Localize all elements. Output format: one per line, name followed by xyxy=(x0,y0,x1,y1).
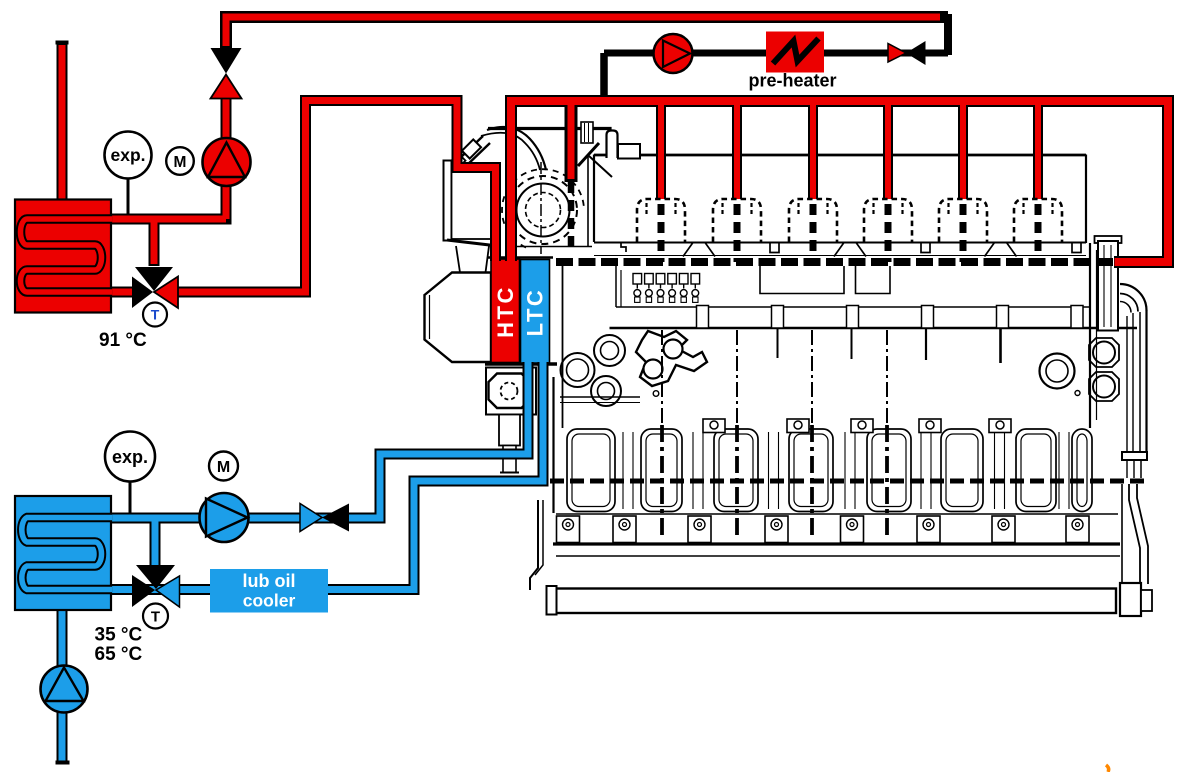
wire: thermostat drop red core xyxy=(151,219,158,264)
rear duct column xyxy=(1090,236,1122,428)
wire: pre-heater black line xyxy=(604,50,948,57)
exhaust outlet plate xyxy=(444,161,499,273)
base rails xyxy=(556,513,1118,515)
pump P4 (raw water) xyxy=(41,666,88,713)
cylinder head cover xyxy=(713,199,761,242)
deck notch xyxy=(770,243,779,253)
turbo outlet flange rects xyxy=(578,131,640,167)
svg-text:65 °C: 65 °C xyxy=(95,644,143,665)
wire: valve-pump-junction casing xyxy=(221,96,232,225)
cylinder head cover xyxy=(637,199,685,242)
deck line secondary xyxy=(594,255,1086,257)
lub oil cooler xyxy=(210,569,328,613)
wire: vent pipe casing top-left xyxy=(57,42,68,200)
deck hook right xyxy=(1072,243,1081,253)
dashed crankshaft line xyxy=(550,479,1150,484)
wire: manifold loop casing xyxy=(511,101,1168,262)
wire: cold tank bottom pipe casing xyxy=(57,610,68,668)
svg-text:exp.: exp. xyxy=(110,145,145,165)
cylinder head cover xyxy=(1014,199,1062,242)
svg-text:35 °C: 35 °C xyxy=(95,625,143,646)
svg-text:T: T xyxy=(151,307,160,323)
svg-text:M: M xyxy=(174,154,187,171)
svg-text:pre-heater: pre-heater xyxy=(748,71,836,91)
pump P1 (HT circuit) xyxy=(203,138,251,186)
wire: tank-to-thermostat stub casing xyxy=(109,287,136,298)
wire: LTC out pipe A casing xyxy=(109,362,528,518)
wire: LTC out pipe B blue core xyxy=(211,362,543,590)
Z bracket front xyxy=(530,500,556,614)
svg-text:cooler: cooler xyxy=(243,591,296,611)
open frame boxes below dashed line xyxy=(760,266,844,294)
wire: pre-heater drop to manifold xyxy=(600,53,608,98)
motor M1 xyxy=(166,147,194,175)
wire: sea pump outlet casing xyxy=(57,711,68,763)
air filter housing xyxy=(425,273,492,363)
wire: thermostat-to-engine n-pipe casing xyxy=(178,101,496,293)
wire: tank top horizontal red core xyxy=(109,216,226,223)
motor M2 xyxy=(209,452,238,481)
deck support trapezoid xyxy=(985,243,1017,257)
cylinder head cover xyxy=(864,199,912,242)
cylinder head covers (dashed) xyxy=(637,199,1062,262)
svg-text:HTC: HTC xyxy=(493,285,518,338)
wire: vent pipe red core xyxy=(59,45,66,200)
svg-text:M: M xyxy=(217,459,230,476)
wire: tank-to-thermostat stub red core xyxy=(109,289,136,296)
turbo inlet elbow xyxy=(449,136,490,170)
wire: thermostat drop casing xyxy=(149,221,160,266)
wire: LTC out pipe B casing xyxy=(211,362,543,590)
turbocharger housing xyxy=(488,122,612,254)
rocker lever part xyxy=(636,331,707,386)
check valve CV1 xyxy=(888,41,926,65)
wire: LTC out pipe A blue core xyxy=(109,362,528,518)
pre-heater unit xyxy=(748,32,836,91)
cylinder centerlines xyxy=(662,330,887,425)
engine top block outline xyxy=(594,155,1086,244)
thermostat valve T1 xyxy=(132,267,178,327)
camshaft band xyxy=(610,306,1138,364)
pump P3 (LT circuit) xyxy=(200,493,249,542)
shut-off valve V1 top left xyxy=(211,48,242,99)
wire: top hot pipe red core xyxy=(226,17,940,46)
shut-off valve V2 xyxy=(300,504,349,532)
crankcase cover row xyxy=(567,429,1092,512)
wire: thermostat2 drop blue core xyxy=(152,518,159,565)
deck hook left xyxy=(621,243,626,253)
deck support trapezoid xyxy=(834,243,866,257)
expansion tank exp2 xyxy=(105,432,155,514)
wire: cooler-valve pipe casing xyxy=(109,584,214,595)
wire: cylinder pipe red cores xyxy=(658,101,664,199)
wire: tank top horizontal casing xyxy=(109,214,232,225)
wire: turbo feed red core xyxy=(568,101,575,179)
oil pan xyxy=(547,583,1153,616)
front gear circles xyxy=(561,335,659,406)
stray orange mark xyxy=(1106,765,1109,772)
deck support trapezoid xyxy=(683,243,715,257)
wire: valve-pump red core xyxy=(223,97,230,219)
rear gear circles xyxy=(1040,338,1120,401)
turbo air intake arcs xyxy=(481,127,546,170)
wire: n-pipe red core xyxy=(178,101,496,293)
svg-text:lub oil: lub oil xyxy=(243,571,296,591)
svg-text:exp.: exp. xyxy=(112,447,148,467)
LTC header tank xyxy=(521,260,550,364)
pipe end caps xyxy=(56,41,69,45)
wire: turbo feed casing xyxy=(565,101,578,182)
hot radiator tank xyxy=(15,200,112,313)
engine front edge xyxy=(562,262,564,428)
cylinder head cover xyxy=(789,199,837,242)
thermostat valve T2 xyxy=(132,565,180,629)
wire: cylinder pipe casings xyxy=(656,101,666,199)
pipe end cap bottom xyxy=(56,761,70,765)
expansion tank exp1 xyxy=(105,132,152,216)
cover top tabs xyxy=(703,419,1011,433)
svg-text:T: T xyxy=(151,609,160,626)
wire: cold tank bottom pipe blue core xyxy=(59,610,66,666)
wire: top hot pipe casing xyxy=(226,17,948,53)
base bolt row xyxy=(557,516,1090,543)
engine mount xyxy=(486,368,536,473)
wire: cooler-valve pipe blue core xyxy=(109,586,214,593)
tank borders xyxy=(487,256,553,259)
deck notch xyxy=(921,243,930,253)
rear pipe bends xyxy=(1120,284,1148,585)
injection pump cluster xyxy=(633,274,700,303)
pre-heater pump P2 xyxy=(654,34,693,73)
dashed camshaft line xyxy=(556,258,1114,266)
wire: sea pump outlet blue core xyxy=(59,711,66,761)
wire: corner drop to check valve xyxy=(944,14,952,55)
wire: manifold loop red core xyxy=(511,101,1168,262)
cylinder head cover xyxy=(939,199,987,242)
cold radiator tank xyxy=(15,496,112,610)
HTC header tank xyxy=(491,259,520,363)
svg-text:91 °C: 91 °C xyxy=(99,330,147,351)
svg-text:LTC: LTC xyxy=(523,288,548,337)
wire: thermostat2 drop casing xyxy=(150,518,161,566)
